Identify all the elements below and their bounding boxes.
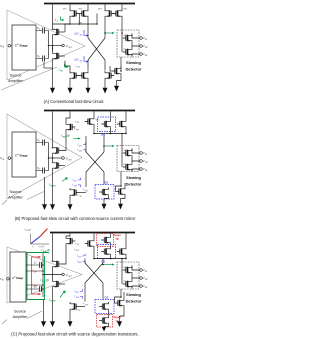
transistor MP1 bbox=[70, 9, 79, 18]
wire rail to MP7 B bbox=[125, 112, 127, 120]
svg-text:MP4: MP4 bbox=[124, 8, 128, 10]
svg-text:MN9: MN9 bbox=[124, 164, 128, 166]
green arrow detector input C bbox=[103, 264, 112, 266]
svg-text:(A) Conventional fast-slew cir: (A) Conventional fast-slew circuit. bbox=[44, 99, 105, 104]
transistor MP5 bias C bbox=[85, 239, 94, 248]
wire cross X B bbox=[86, 152, 104, 172]
transistor MN8 detector C bbox=[123, 266, 132, 275]
wire cross X B 2 bbox=[86, 152, 104, 172]
wire MN6 drain up bbox=[52, 46, 54, 52]
wire cross down left bbox=[87, 60, 89, 71]
transistor MN9 detector bbox=[123, 48, 132, 57]
svg-text:CS: CS bbox=[102, 260, 106, 264]
transistor MN2 bbox=[79, 71, 88, 80]
wire MP6 drain to Vout B bbox=[52, 155, 54, 161]
degen box top C (red dashed) bbox=[97, 234, 114, 247]
wire MP6 drain to Vout C bbox=[52, 269, 54, 280]
CS mirror box top C (blue dashed) bbox=[98, 245, 116, 259]
CS mirror box top B (blue dashed) bbox=[98, 117, 116, 132]
wire cross down right B bbox=[103, 172, 105, 185]
svg-text:(B) Proposed fast-slew circuit: (B) Proposed fast-slew circuit with comm… bbox=[15, 216, 136, 221]
wire Vout line bbox=[49, 45, 62, 47]
transistor MP7 B bbox=[117, 120, 126, 129]
wire cross X C bbox=[85, 263, 103, 283]
ground cap node B bbox=[44, 177, 46, 199]
svg-text:MN8: MN8 bbox=[124, 35, 128, 37]
wire MN6 gate stub bbox=[62, 55, 65, 57]
leader line A bbox=[1, 67, 57, 90]
node Vout mid B bbox=[140, 160, 143, 163]
wire Vout line C bbox=[43, 274, 62, 276]
wire rail to MP6 B bbox=[52, 112, 54, 147]
transistor MN8 detector bbox=[123, 34, 132, 43]
green arrow detector input bbox=[105, 32, 112, 34]
wire MN6 source down C bbox=[52, 289, 54, 317]
svg-text:UP: UP bbox=[145, 154, 147, 156]
wire detector to MN10 gate C bbox=[115, 289, 122, 303]
ground MN2 bbox=[87, 80, 89, 83]
wire output Vout mid B bbox=[132, 158, 140, 163]
wire output Vdn bbox=[132, 54, 140, 57]
wire rail to MP3 bbox=[104, 5, 106, 10]
wire MP5 drain down C bbox=[93, 248, 95, 259]
wire MN7 gate bbox=[110, 66, 112, 71]
transistor MPsup B bbox=[66, 123, 75, 132]
svg-text:OUT: OUT bbox=[145, 162, 148, 164]
svg-text:Source: Source bbox=[9, 74, 21, 78]
svg-text:Slewing: Slewing bbox=[126, 60, 141, 65]
wire MN5 gate C bbox=[79, 306, 85, 308]
svg-text:SUPS: SUPS bbox=[50, 185, 56, 187]
ground MN6 B bbox=[50, 199, 55, 210]
wire MN10 drain up C bbox=[123, 292, 125, 299]
svg-text:DN: DN bbox=[145, 170, 147, 172]
node Vout mid bbox=[140, 45, 143, 48]
wire cross down left B bbox=[85, 172, 87, 187]
1st stage box A bbox=[12, 25, 36, 70]
node Vout A bbox=[62, 44, 65, 47]
wire MP6 gate stub bbox=[62, 31, 65, 33]
wire cross down right bbox=[104, 60, 106, 71]
amplifier triangle C bbox=[7, 247, 82, 303]
wire detector to MN10 gate B bbox=[116, 172, 122, 192]
node Vout B bbox=[62, 157, 65, 160]
transistor MNCS C bbox=[99, 302, 108, 311]
transistor MP5 bias B bbox=[85, 117, 94, 126]
wire detector gate bus C bbox=[121, 259, 123, 285]
wire stage bias to MN6 column bbox=[44, 67, 53, 69]
transistor MN5 bias B bbox=[70, 188, 79, 197]
svg-text:Source: Source bbox=[9, 190, 21, 194]
amplifier triangle A bbox=[7, 10, 85, 80]
slewing detector box A bbox=[117, 30, 139, 57]
wire MN6 gate stub B bbox=[62, 165, 65, 167]
svg-text:BP: BP bbox=[77, 244, 79, 246]
wire cross feed left B bbox=[85, 136, 87, 152]
svg-text:Stage: Stage bbox=[19, 44, 28, 48]
slewing detector box C bbox=[117, 262, 139, 289]
svg-text:SUPS: SUPS bbox=[50, 300, 56, 302]
svg-text:BP: BP bbox=[80, 22, 82, 24]
ground MN6 C bbox=[50, 316, 55, 327]
transistor MN6 output pulldown B bbox=[53, 161, 62, 170]
svg-text:MN9: MN9 bbox=[124, 49, 128, 51]
wire rail to MP6 bbox=[52, 5, 54, 28]
wire rail to MP4 bbox=[121, 5, 123, 10]
svg-text:Detector: Detector bbox=[126, 181, 142, 186]
wire detector to MN7 bbox=[120, 57, 122, 71]
wire rail to MP5 C bbox=[93, 234, 95, 240]
transistor MN6 output pulldown C bbox=[53, 280, 62, 289]
ground degen C bbox=[104, 325, 109, 327]
ground MN3 bbox=[104, 80, 106, 83]
wire degen to CS C bbox=[110, 245, 112, 248]
svg-text:MN8: MN8 bbox=[124, 267, 128, 269]
ground MN5 C bbox=[69, 311, 71, 316]
transistor MN10 B bbox=[116, 187, 125, 196]
wire cross X right-to-left bbox=[88, 38, 105, 60]
svg-text:MN8: MN8 bbox=[124, 150, 128, 152]
transistor MN9 detector C bbox=[123, 280, 132, 289]
wire detector gate bus B bbox=[121, 134, 123, 168]
1st stage box B bbox=[12, 132, 36, 177]
wire output Vdn C bbox=[132, 286, 140, 289]
svg-text:UP: UP bbox=[145, 271, 147, 273]
node Vup bbox=[140, 37, 143, 40]
ground MN5 B bbox=[69, 197, 71, 199]
wire MN1 drain up bbox=[65, 61, 70, 72]
wire Vin to box bbox=[11, 45, 12, 47]
wire cross feed right B bbox=[103, 136, 105, 152]
svg-text:DN: DN bbox=[145, 55, 147, 57]
svg-text:Degen.: Degen. bbox=[114, 317, 122, 319]
wire output Vout mid C bbox=[132, 275, 140, 280]
svg-text:MP1: MP1 bbox=[63, 8, 67, 10]
svg-text:(t): (t) bbox=[47, 248, 50, 252]
svg-text:MP2: MP2 bbox=[79, 8, 83, 10]
node Vout C bbox=[62, 273, 65, 276]
wire mirror node B bbox=[94, 129, 126, 134]
wire MP4 drain into detector bbox=[121, 18, 123, 52]
svg-text:OUT: OUT bbox=[145, 47, 148, 49]
green arrow detector input B bbox=[104, 145, 112, 147]
amplifier triangle B bbox=[7, 114, 82, 199]
node MP1 gate tie bbox=[78, 14, 80, 25]
svg-text:UP: UP bbox=[145, 39, 147, 41]
wire MP6 drain to Vout bbox=[52, 37, 54, 51]
wire rail to MP6 C bbox=[52, 234, 54, 260]
wire MN6 source down B bbox=[52, 170, 54, 199]
svg-text:CS: CS bbox=[105, 180, 109, 184]
svg-text:Amplifier: Amplifier bbox=[13, 315, 29, 319]
wire MN5 gate B bbox=[79, 192, 86, 194]
VDD rail A bbox=[44, 3, 135, 5]
wire output Vup bbox=[132, 34, 140, 39]
node Vdn bbox=[140, 53, 143, 56]
wire output Vdn B bbox=[132, 169, 140, 172]
wire rail to MPCS B bbox=[110, 112, 112, 120]
svg-text:Detector: Detector bbox=[126, 66, 142, 71]
svg-text:Slewing: Slewing bbox=[126, 175, 141, 180]
svg-text:BN: BN bbox=[78, 310, 80, 312]
svg-text:TR: TR bbox=[116, 239, 119, 241]
svg-text:Stage: Stage bbox=[19, 154, 28, 158]
ground MN7 bbox=[117, 76, 122, 81]
wire MN6 gate stub C bbox=[62, 283, 65, 285]
svg-text:Source: Source bbox=[14, 309, 26, 313]
node Vout mid C bbox=[140, 277, 143, 280]
wire mirror node C bbox=[94, 256, 126, 259]
svg-text:Degen.: Degen. bbox=[114, 235, 122, 237]
ground cap node C bbox=[43, 300, 45, 317]
svg-text:Amplifier: Amplifier bbox=[8, 196, 24, 200]
transistor MP7 C bbox=[117, 247, 126, 256]
wire cross down left C bbox=[84, 283, 86, 302]
CS mirror box bottom B (blue dashed) bbox=[95, 185, 114, 200]
wire CS to degen C bbox=[108, 311, 110, 316]
ground MN10 B bbox=[121, 196, 126, 199]
green feedback loop C bbox=[27, 253, 49, 300]
wire replica node C bbox=[26, 253, 43, 297]
CS mirror box bottom C (blue dashed) bbox=[95, 300, 114, 314]
svg-text:(t): (t) bbox=[67, 133, 70, 137]
wire cap feedback node bbox=[48, 31, 50, 59]
transistor MP3 bbox=[105, 9, 114, 18]
svg-text:BN: BN bbox=[78, 67, 80, 69]
ground MN1 bbox=[69, 80, 71, 83]
transistor Mdeg bottom C bbox=[99, 316, 108, 325]
node Vdn C bbox=[140, 285, 143, 288]
svg-text:(t): (t) bbox=[46, 279, 49, 282]
transistor MPCS C bbox=[101, 247, 110, 256]
inset graph blue curve bbox=[31, 237, 40, 244]
wire cap feedback node B bbox=[48, 143, 50, 171]
VDD rail C bbox=[50, 232, 135, 234]
red replica bracket C bbox=[32, 257, 39, 294]
wire cross down right C bbox=[102, 283, 104, 300]
transistor MN6 output pulldown bbox=[53, 52, 62, 61]
wire rail to degen C bbox=[110, 234, 112, 236]
transistor MN7 bbox=[112, 67, 121, 76]
inset graph axes C bbox=[31, 234, 50, 245]
wire MP3 drain to cross bbox=[104, 18, 106, 38]
transistor Mdeg top C bbox=[101, 236, 110, 245]
svg-text:BN: BN bbox=[80, 196, 82, 198]
node Vup C bbox=[140, 269, 143, 272]
svg-text:Amplifier: Amplifier bbox=[8, 79, 24, 83]
wire Vin to box B bbox=[11, 157, 12, 159]
VDD rail B bbox=[44, 110, 135, 112]
1st stage box C bbox=[10, 252, 26, 302]
transistor MPCS B bbox=[101, 120, 110, 129]
wire cross feed right C bbox=[102, 259, 104, 264]
svg-text:OUT: OUT bbox=[145, 279, 148, 281]
node Vdn B bbox=[140, 168, 143, 171]
transistor MPsup C bbox=[66, 237, 75, 246]
wire rail to MP7 C bbox=[125, 234, 127, 248]
node Vup B bbox=[140, 152, 143, 155]
transistor MNCS B bbox=[99, 188, 108, 197]
transistor MN8 detector B bbox=[123, 149, 132, 158]
slewing detector box B bbox=[117, 146, 139, 172]
svg-text:Detector: Detector bbox=[126, 298, 142, 303]
svg-text:MP3: MP3 bbox=[98, 8, 102, 10]
transistor MN9 detector B bbox=[123, 163, 132, 172]
ground MNCS B bbox=[104, 197, 109, 199]
wire MPsup source to MP6 gate C bbox=[62, 246, 66, 265]
wire Vin to box C bbox=[8, 278, 11, 280]
transistor MN5 bias C bbox=[70, 302, 79, 311]
wire MP2 drain to cross bbox=[87, 18, 89, 38]
wire rail to MPsup B bbox=[66, 112, 70, 123]
wire output Vup C bbox=[132, 266, 140, 271]
wire MPsup source to MP6 gate B bbox=[62, 132, 66, 151]
svg-text:MN9: MN9 bbox=[124, 281, 128, 283]
wire MP1 drain down bbox=[65, 18, 70, 32]
transistor MP2 bbox=[79, 9, 88, 18]
wire cross X C 2 bbox=[85, 263, 103, 283]
svg-text:Slewing: Slewing bbox=[126, 292, 141, 297]
wire rail to MP1 bbox=[69, 5, 71, 10]
svg-text:(C) Proposed fast-slew circuit: (C) Proposed fast-slew circuit with sour… bbox=[11, 331, 139, 336]
wire output Vout mid bbox=[132, 43, 140, 48]
transistor MP4 bbox=[113, 9, 122, 18]
wire Vout line B bbox=[49, 157, 62, 159]
wire output Vup B bbox=[132, 149, 140, 154]
wire rail to MP5 B bbox=[93, 112, 95, 118]
ground MN10 C bbox=[120, 308, 125, 317]
svg-text:CS: CS bbox=[105, 295, 109, 299]
wire rail to MP2 bbox=[87, 5, 89, 10]
wire cross feed left C bbox=[84, 259, 86, 264]
transistor MN3 bbox=[105, 71, 114, 80]
svg-text:BP: BP bbox=[77, 122, 79, 124]
svg-text:(t): (t) bbox=[29, 229, 31, 232]
svg-text:DN: DN bbox=[145, 287, 147, 289]
transistor MN10 C bbox=[115, 299, 124, 308]
transistor MN1 bbox=[70, 71, 79, 80]
wire MN10 drain up B bbox=[124, 183, 126, 187]
wire VBP bias A bbox=[53, 14, 98, 25]
svg-text:Stage: Stage bbox=[16, 276, 24, 280]
leader line B bbox=[2, 192, 44, 205]
degen box bottom C (red dashed) bbox=[97, 315, 113, 328]
wire rail to MPsup C bbox=[66, 234, 70, 237]
wire MP5 drain down B bbox=[93, 126, 95, 134]
wire MN6 source down bbox=[52, 61, 54, 83]
leader line C bbox=[2, 311, 42, 324]
inset graph red curve bbox=[40, 229, 48, 237]
wire cross X left-to-right bbox=[88, 38, 105, 60]
ground MN6 bbox=[50, 83, 55, 94]
